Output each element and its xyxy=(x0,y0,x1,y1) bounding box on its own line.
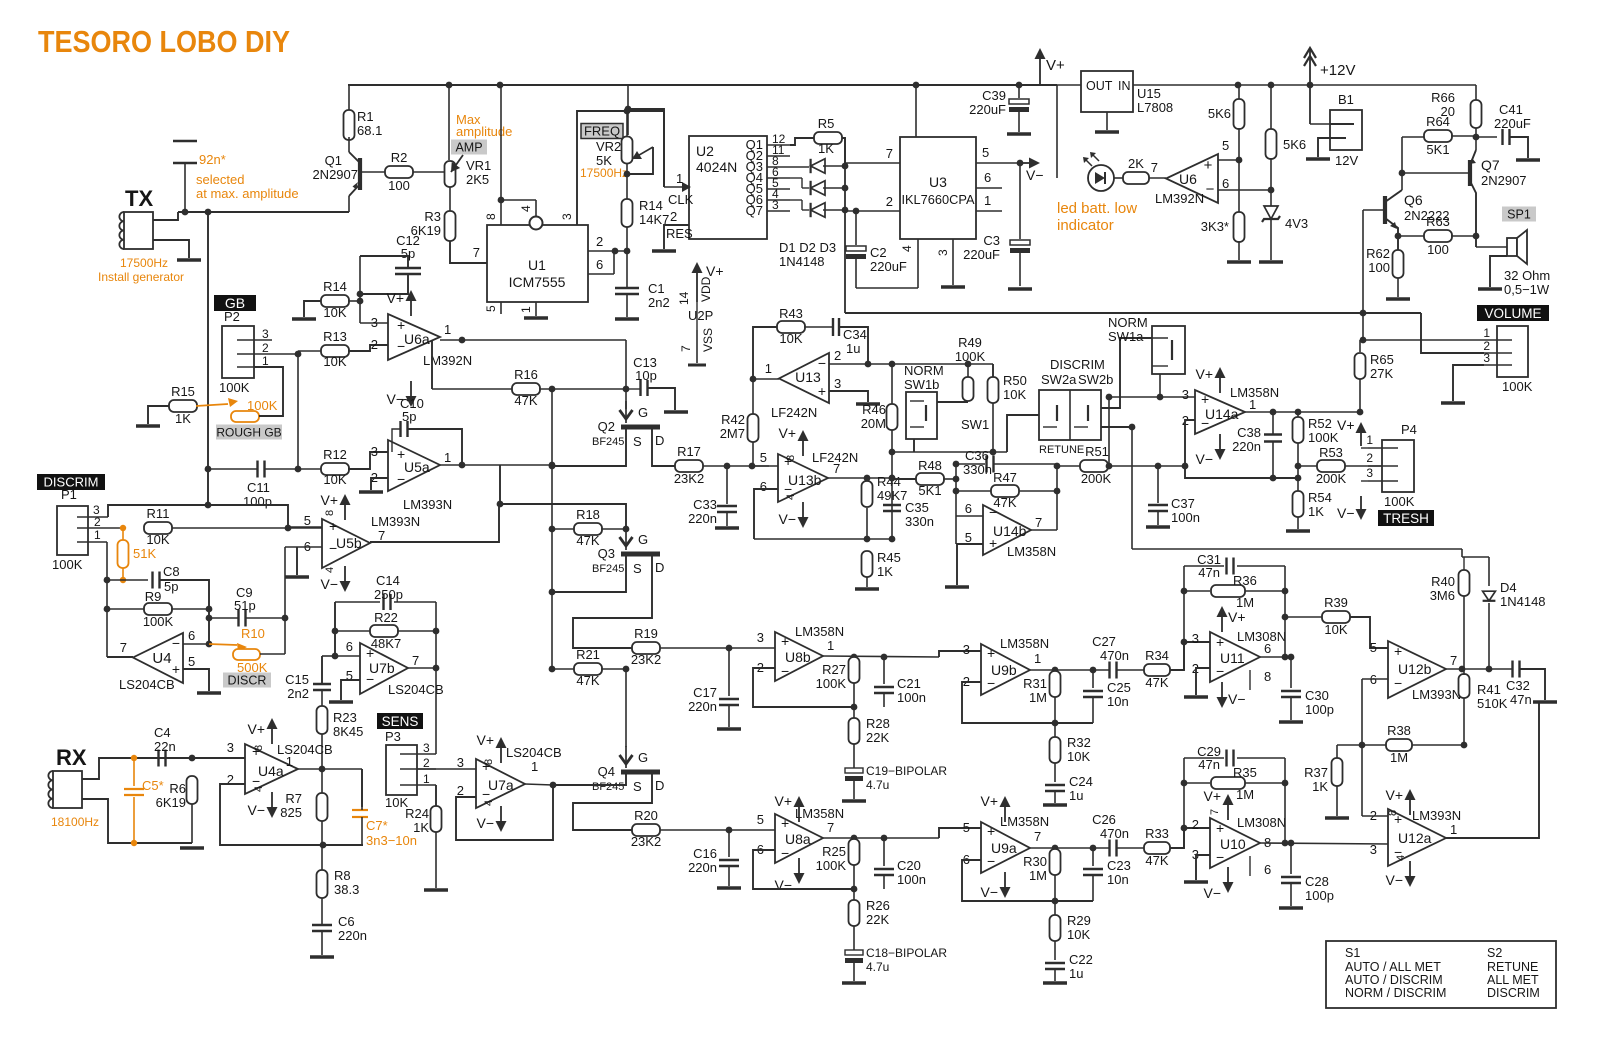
svg-text:G: G xyxy=(638,532,648,547)
svg-text:1M: 1M xyxy=(1390,750,1408,765)
svg-text:V+: V+ xyxy=(1385,787,1403,803)
svg-text:7: 7 xyxy=(833,461,840,476)
svg-text:LM308N: LM308N xyxy=(1237,629,1286,644)
svg-text:VR2: VR2 xyxy=(596,139,621,154)
svg-text:1: 1 xyxy=(262,354,269,368)
svg-text:1: 1 xyxy=(519,306,533,313)
svg-text:6K19: 6K19 xyxy=(156,795,186,810)
svg-text:1: 1 xyxy=(286,754,293,769)
svg-text:7: 7 xyxy=(1151,160,1158,175)
svg-text:V−: V− xyxy=(1337,505,1355,521)
svg-text:U5a: U5a xyxy=(404,459,430,475)
svg-text:1M: 1M xyxy=(1236,787,1254,802)
svg-text:U9a: U9a xyxy=(991,840,1017,856)
svg-text:3: 3 xyxy=(423,741,430,755)
svg-text:68.1: 68.1 xyxy=(357,123,382,138)
svg-text:100n: 100n xyxy=(1171,510,1200,525)
svg-text:4024N: 4024N xyxy=(696,159,737,175)
svg-text:10n: 10n xyxy=(1107,872,1129,887)
svg-text:220uF: 220uF xyxy=(969,102,1006,117)
svg-text:SW2a: SW2a xyxy=(1041,372,1077,387)
svg-text:at max. amplitude: at max. amplitude xyxy=(196,186,299,201)
svg-text:R47: R47 xyxy=(993,470,1017,485)
svg-text:+: + xyxy=(366,645,374,661)
svg-text:5: 5 xyxy=(1222,138,1229,153)
svg-text:1u: 1u xyxy=(846,341,860,356)
svg-text:5: 5 xyxy=(760,450,767,465)
svg-text:RETUNE: RETUNE xyxy=(1039,444,1084,456)
svg-text:8: 8 xyxy=(1387,810,1399,816)
svg-text:48K7: 48K7 xyxy=(371,636,401,651)
svg-text:+12V: +12V xyxy=(1320,62,1355,79)
svg-text:1: 1 xyxy=(1034,651,1041,666)
svg-text:V−: V− xyxy=(1195,451,1213,467)
svg-text:D: D xyxy=(655,560,664,575)
svg-text:RX: RX xyxy=(56,745,87,770)
svg-text:1K: 1K xyxy=(877,564,893,579)
svg-text:LF242N: LF242N xyxy=(771,405,817,420)
svg-text:R2: R2 xyxy=(391,150,408,165)
svg-text:10K: 10K xyxy=(1067,927,1090,942)
svg-text:2K5: 2K5 xyxy=(466,172,489,187)
svg-text:Q7: Q7 xyxy=(1481,157,1500,173)
svg-text:NORM: NORM xyxy=(1108,315,1148,330)
svg-text:47K: 47K xyxy=(514,393,537,408)
svg-text:3: 3 xyxy=(834,376,841,391)
svg-text:3: 3 xyxy=(227,740,234,755)
svg-text:RES: RES xyxy=(666,226,693,241)
svg-text:23K2: 23K2 xyxy=(631,652,661,667)
svg-text:R29: R29 xyxy=(1067,913,1091,928)
svg-text:C18−BIPOLAR: C18−BIPOLAR xyxy=(866,946,947,960)
svg-text:LM358N: LM358N xyxy=(1000,814,1049,829)
svg-text:7: 7 xyxy=(412,653,419,668)
svg-text:R9: R9 xyxy=(145,589,162,604)
svg-text:V+: V+ xyxy=(1195,366,1213,382)
svg-text:220n: 220n xyxy=(1232,439,1261,454)
svg-text:C38: C38 xyxy=(1237,425,1261,440)
svg-text:8: 8 xyxy=(785,455,797,461)
svg-text:R24: R24 xyxy=(405,806,429,821)
svg-text:V−: V− xyxy=(320,576,338,592)
svg-text:5: 5 xyxy=(963,820,970,835)
svg-text:1: 1 xyxy=(1249,397,1256,412)
svg-text:C32: C32 xyxy=(1506,678,1530,693)
svg-text:1: 1 xyxy=(1450,822,1457,837)
svg-text:2: 2 xyxy=(371,337,378,352)
svg-text:U14b: U14b xyxy=(993,523,1027,539)
svg-text:LM308N: LM308N xyxy=(1237,815,1286,830)
svg-text:6: 6 xyxy=(346,639,353,654)
svg-text:10p: 10p xyxy=(635,368,657,383)
svg-text:Q2: Q2 xyxy=(598,419,615,434)
svg-text:U8a: U8a xyxy=(785,831,811,847)
svg-text:1M: 1M xyxy=(1029,868,1047,883)
svg-text:U14a: U14a xyxy=(1205,406,1239,422)
svg-text:V−: V− xyxy=(778,511,796,527)
svg-text:R43: R43 xyxy=(779,306,803,321)
svg-text:47K: 47K xyxy=(576,673,599,688)
svg-text:S: S xyxy=(633,779,642,794)
svg-text:G: G xyxy=(638,750,648,765)
svg-text:5K6: 5K6 xyxy=(1208,106,1231,121)
svg-text:510K: 510K xyxy=(1477,696,1508,711)
svg-text:12V: 12V xyxy=(1335,153,1358,168)
svg-text:C36: C36 xyxy=(965,448,989,463)
svg-text:3: 3 xyxy=(1366,466,1373,480)
svg-text:220uF: 220uF xyxy=(870,259,907,274)
svg-text:2: 2 xyxy=(596,234,603,249)
svg-text:U11: U11 xyxy=(1220,650,1245,666)
svg-text:100n: 100n xyxy=(897,690,926,705)
svg-text:7: 7 xyxy=(886,146,893,161)
svg-text:4.7u: 4.7u xyxy=(866,960,889,974)
svg-text:1u: 1u xyxy=(1069,788,1083,803)
svg-text:V+: V+ xyxy=(1046,57,1065,74)
svg-text:R25: R25 xyxy=(822,844,846,859)
svg-text:LM393N: LM393N xyxy=(403,497,452,512)
svg-text:R33: R33 xyxy=(1145,826,1169,841)
svg-text:51K: 51K xyxy=(133,546,156,561)
svg-text:C15: C15 xyxy=(285,672,309,687)
svg-text:1N4148: 1N4148 xyxy=(779,254,825,269)
svg-text:R10: R10 xyxy=(241,626,265,641)
svg-text:amplitude: amplitude xyxy=(456,124,512,139)
svg-text:47n: 47n xyxy=(1198,565,1220,580)
svg-text:R64: R64 xyxy=(1426,114,1450,129)
svg-text:DISCRIM: DISCRIM xyxy=(1487,986,1540,1000)
svg-text:3n3−10n: 3n3−10n xyxy=(366,833,417,848)
svg-text:C2: C2 xyxy=(870,245,887,260)
svg-text:C25: C25 xyxy=(1107,680,1131,695)
svg-text:SW1b: SW1b xyxy=(904,377,939,392)
svg-text:38.3: 38.3 xyxy=(334,882,359,897)
svg-text:+: + xyxy=(987,823,995,839)
svg-text:R12: R12 xyxy=(323,447,347,462)
svg-text:10K: 10K xyxy=(1324,622,1347,637)
svg-text:47K: 47K xyxy=(1145,853,1168,868)
svg-text:100p: 100p xyxy=(1305,888,1334,903)
svg-text:R5: R5 xyxy=(818,116,835,131)
svg-text:3: 3 xyxy=(371,315,378,330)
svg-text:R22: R22 xyxy=(374,610,398,625)
svg-text:−: − xyxy=(781,663,789,679)
svg-text:R44: R44 xyxy=(877,474,901,489)
svg-text:22n: 22n xyxy=(154,739,176,754)
svg-text:5p: 5p xyxy=(402,409,416,424)
svg-text:V+: V+ xyxy=(774,793,792,809)
svg-text:AUTO / DISCRIM: AUTO / DISCRIM xyxy=(1345,973,1443,987)
svg-text:1N4148: 1N4148 xyxy=(1500,594,1546,609)
svg-text:1u: 1u xyxy=(1069,966,1083,981)
svg-text:2K: 2K xyxy=(1128,156,1144,171)
svg-text:C6: C6 xyxy=(338,914,355,929)
svg-text:R48: R48 xyxy=(918,458,942,473)
svg-text:4V3: 4V3 xyxy=(1285,216,1308,231)
svg-text:ICM7555: ICM7555 xyxy=(509,274,566,290)
svg-text:330n: 330n xyxy=(963,462,992,477)
svg-text:51p: 51p xyxy=(234,598,256,613)
svg-text:5K1: 5K1 xyxy=(1426,142,1449,157)
svg-text:V+: V+ xyxy=(320,492,338,508)
svg-text:2n2: 2n2 xyxy=(648,295,670,310)
svg-text:1M: 1M xyxy=(1029,690,1047,705)
svg-text:1: 1 xyxy=(984,193,991,208)
svg-text:7: 7 xyxy=(378,528,385,543)
svg-text:14: 14 xyxy=(677,291,691,305)
svg-text:3: 3 xyxy=(1182,387,1189,402)
svg-text:6: 6 xyxy=(596,257,603,272)
svg-text:U8b: U8b xyxy=(785,649,811,665)
svg-text:2n2: 2n2 xyxy=(287,686,309,701)
svg-text:C19−BIPOLAR: C19−BIPOLAR xyxy=(866,764,947,778)
svg-text:V+: V+ xyxy=(1337,417,1355,433)
svg-text:VDD: VDD xyxy=(699,276,713,302)
svg-text:6: 6 xyxy=(1222,176,1229,191)
svg-text:R52: R52 xyxy=(1308,416,1332,431)
svg-text:U2: U2 xyxy=(696,143,714,159)
svg-text:7: 7 xyxy=(1209,809,1221,815)
svg-text:R27: R27 xyxy=(822,662,846,677)
svg-text:4: 4 xyxy=(483,800,495,806)
svg-text:LS204CB: LS204CB xyxy=(506,745,562,760)
svg-text:2N2907: 2N2907 xyxy=(1481,173,1527,188)
svg-text:LM358N: LM358N xyxy=(795,806,844,821)
svg-text:SENS: SENS xyxy=(382,714,419,729)
svg-text:+: + xyxy=(172,661,180,677)
svg-text:LM393N: LM393N xyxy=(371,514,420,529)
svg-text:Q3: Q3 xyxy=(598,546,615,561)
svg-text:7: 7 xyxy=(120,640,127,655)
svg-text:R46: R46 xyxy=(862,402,886,417)
svg-text:R20: R20 xyxy=(634,808,658,823)
svg-text:5: 5 xyxy=(982,145,989,160)
svg-text:BF245: BF245 xyxy=(592,563,624,575)
svg-text:U12a: U12a xyxy=(1398,830,1432,846)
svg-text:2: 2 xyxy=(457,783,464,798)
svg-text:TX: TX xyxy=(125,186,153,211)
svg-text:SP1: SP1 xyxy=(1507,208,1531,222)
svg-text:200K: 200K xyxy=(1316,471,1347,486)
svg-text:NORM: NORM xyxy=(904,363,944,378)
svg-text:5K6: 5K6 xyxy=(1283,137,1306,152)
svg-text:IN: IN xyxy=(1118,79,1131,93)
svg-text:100K: 100K xyxy=(219,380,250,395)
svg-text:20M: 20M xyxy=(861,416,886,431)
svg-text:R21: R21 xyxy=(576,647,600,662)
svg-text:220uF: 220uF xyxy=(963,247,1000,262)
svg-text:U7a: U7a xyxy=(488,777,514,793)
svg-text:17500Hz: 17500Hz xyxy=(120,256,168,270)
svg-text:−: − xyxy=(172,635,180,651)
svg-text:V+: V+ xyxy=(778,425,796,441)
svg-text:27K: 27K xyxy=(1370,366,1393,381)
svg-text:R14: R14 xyxy=(639,198,663,213)
svg-text:R19: R19 xyxy=(634,626,658,641)
svg-text:P3: P3 xyxy=(385,729,401,744)
svg-text:U6: U6 xyxy=(1179,171,1197,187)
svg-text:1K: 1K xyxy=(1312,779,1328,794)
svg-text:VR1: VR1 xyxy=(466,158,491,173)
svg-text:220n: 220n xyxy=(688,511,717,526)
svg-text:250p: 250p xyxy=(374,587,403,602)
svg-text:10K: 10K xyxy=(323,305,346,320)
svg-text:+: + xyxy=(329,518,337,534)
svg-text:R36: R36 xyxy=(1233,573,1257,588)
svg-text:U9b: U9b xyxy=(991,662,1017,678)
svg-text:1: 1 xyxy=(531,759,538,774)
svg-text:AUTO / ALL MET: AUTO / ALL MET xyxy=(1345,960,1441,974)
svg-text:3: 3 xyxy=(262,327,269,341)
svg-text:7: 7 xyxy=(1034,829,1041,844)
svg-text:V−: V− xyxy=(1026,167,1044,183)
svg-text:R28: R28 xyxy=(866,716,890,731)
svg-text:470n: 470n xyxy=(1100,826,1129,841)
svg-text:6: 6 xyxy=(965,501,972,516)
svg-text:1: 1 xyxy=(444,322,451,337)
svg-text:5: 5 xyxy=(1370,640,1377,655)
svg-text:3: 3 xyxy=(936,249,950,256)
svg-text:5p: 5p xyxy=(164,579,178,594)
svg-text:R63: R63 xyxy=(1426,214,1450,229)
svg-text:V−: V− xyxy=(476,815,494,831)
svg-text:23K2: 23K2 xyxy=(674,471,704,486)
svg-text:3: 3 xyxy=(560,213,574,220)
svg-text:1: 1 xyxy=(1366,433,1373,447)
svg-text:+: + xyxy=(781,815,789,831)
svg-text:V−: V− xyxy=(1228,691,1246,707)
svg-text:TESORO LOBO DIY: TESORO LOBO DIY xyxy=(38,24,290,59)
svg-text:2: 2 xyxy=(1192,817,1199,832)
svg-text:10K: 10K xyxy=(323,354,346,369)
svg-text:R18: R18 xyxy=(576,507,600,522)
svg-text:10K: 10K xyxy=(1067,749,1090,764)
svg-text:C34: C34 xyxy=(843,327,867,342)
svg-text:+: + xyxy=(1216,820,1224,836)
svg-text:Q7: Q7 xyxy=(746,203,763,218)
svg-text:R51: R51 xyxy=(1085,444,1109,459)
svg-text:R23: R23 xyxy=(333,710,357,725)
svg-text:C5*: C5* xyxy=(142,778,164,793)
svg-text:5: 5 xyxy=(304,513,311,528)
svg-text:7: 7 xyxy=(827,820,834,835)
svg-text:G: G xyxy=(638,405,648,420)
svg-text:C23: C23 xyxy=(1107,858,1131,873)
svg-text:47K: 47K xyxy=(576,533,599,548)
svg-text:220n: 220n xyxy=(338,928,367,943)
svg-text:1K: 1K xyxy=(1308,504,1324,519)
svg-text:10K: 10K xyxy=(323,472,346,487)
svg-text:3: 3 xyxy=(963,642,970,657)
svg-text:C1: C1 xyxy=(648,281,665,296)
svg-text:3: 3 xyxy=(457,755,464,770)
svg-text:100: 100 xyxy=(1368,260,1390,275)
svg-text:RETUNE: RETUNE xyxy=(1487,960,1538,974)
svg-text:C27: C27 xyxy=(1092,634,1116,649)
svg-text:R41: R41 xyxy=(1477,682,1501,697)
svg-text:1: 1 xyxy=(423,772,430,786)
svg-text:5: 5 xyxy=(965,530,972,545)
svg-text:−: − xyxy=(818,355,826,371)
svg-text:R3: R3 xyxy=(424,209,441,224)
svg-text:V−: V− xyxy=(980,884,998,900)
svg-text:825: 825 xyxy=(280,805,302,820)
svg-text:R49: R49 xyxy=(958,335,982,350)
svg-text:Install generator: Install generator xyxy=(98,270,184,284)
svg-text:R13: R13 xyxy=(323,329,347,344)
svg-text:R1: R1 xyxy=(357,109,374,124)
svg-text:U10: U10 xyxy=(1220,836,1246,852)
svg-text:CLK: CLK xyxy=(668,192,694,207)
svg-text:3: 3 xyxy=(757,630,764,645)
svg-text:C14: C14 xyxy=(376,573,400,588)
svg-text:V−: V− xyxy=(1385,872,1403,888)
svg-text:100K: 100K xyxy=(816,858,847,873)
svg-text:100: 100 xyxy=(388,178,410,193)
svg-text:V+: V+ xyxy=(1203,788,1221,804)
svg-text:P4: P4 xyxy=(1401,422,1417,437)
svg-text:1: 1 xyxy=(1483,326,1490,340)
svg-text:L7808: L7808 xyxy=(1137,100,1173,115)
svg-text:6: 6 xyxy=(1264,641,1271,656)
svg-text:LM358N: LM358N xyxy=(1007,544,1056,559)
svg-text:10K: 10K xyxy=(779,331,802,346)
svg-text:−: − xyxy=(781,845,789,861)
svg-text:LM392N: LM392N xyxy=(1155,191,1204,206)
svg-text:8: 8 xyxy=(1264,669,1271,684)
svg-text:5: 5 xyxy=(484,305,498,312)
svg-text:TRESH: TRESH xyxy=(1383,511,1429,526)
svg-text:4: 4 xyxy=(253,786,265,792)
svg-text:+: + xyxy=(1204,157,1213,174)
svg-text:7: 7 xyxy=(473,245,480,260)
svg-text:200K: 200K xyxy=(1081,471,1112,486)
svg-text:C7*: C7* xyxy=(366,818,388,833)
svg-text:8K45: 8K45 xyxy=(333,724,363,739)
svg-text:BF245: BF245 xyxy=(592,436,624,448)
svg-text:6: 6 xyxy=(984,170,991,185)
svg-text:SW1: SW1 xyxy=(961,417,989,432)
svg-text:100K: 100K xyxy=(1308,430,1339,445)
svg-text:DISCRIM: DISCRIM xyxy=(1050,357,1105,372)
svg-text:C4: C4 xyxy=(154,725,171,740)
svg-text:R54: R54 xyxy=(1308,490,1332,505)
svg-text:330n: 330n xyxy=(905,514,934,529)
svg-text:C39: C39 xyxy=(982,88,1006,103)
svg-text:5: 5 xyxy=(188,654,195,669)
svg-text:+: + xyxy=(987,645,995,661)
svg-text:−: − xyxy=(989,504,997,520)
svg-text:S2: S2 xyxy=(1487,946,1502,960)
svg-text:10K: 10K xyxy=(146,532,169,547)
svg-text:22K: 22K xyxy=(866,730,889,745)
svg-text:2M7: 2M7 xyxy=(720,426,745,441)
svg-text:SW2b: SW2b xyxy=(1078,372,1113,387)
svg-text:+: + xyxy=(1216,634,1224,650)
svg-text:C8: C8 xyxy=(163,564,180,579)
svg-text:C17: C17 xyxy=(693,685,717,700)
svg-text:2: 2 xyxy=(262,341,269,355)
svg-text:4: 4 xyxy=(900,245,914,252)
svg-text:S: S xyxy=(633,561,642,576)
svg-text:18100Hz: 18100Hz xyxy=(51,815,99,829)
svg-text:V+: V+ xyxy=(476,732,494,748)
svg-text:100p: 100p xyxy=(1305,702,1334,717)
svg-text:C37: C37 xyxy=(1171,496,1195,511)
svg-text:3: 3 xyxy=(1483,351,1490,365)
svg-text:R8: R8 xyxy=(334,868,351,883)
svg-text:3: 3 xyxy=(772,198,779,212)
